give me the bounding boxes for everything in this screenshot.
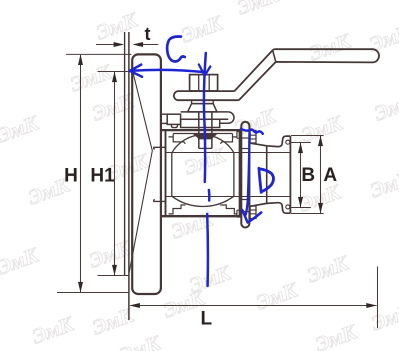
svg-text:ЭмК: ЭмК: [298, 110, 347, 148]
svg-text:H1: H1: [90, 166, 115, 187]
svg-text:ЭмК: ЭмК: [29, 311, 78, 349]
svg-text:ЭмК: ЭмК: [93, 7, 142, 45]
svg-text:ЭмК: ЭмК: [366, 19, 399, 57]
svg-text:ЭмК: ЭмК: [178, 10, 227, 48]
svg-text:B: B: [301, 165, 315, 186]
svg-text:ЭмК: ЭмК: [253, 277, 302, 315]
svg-text:ЭмК: ЭмК: [371, 88, 399, 126]
svg-text:ЭмК: ЭмК: [67, 59, 116, 97]
svg-text:H: H: [64, 166, 78, 187]
svg-text:t: t: [145, 24, 151, 44]
svg-text:ЭмК: ЭмК: [86, 235, 135, 273]
svg-text:ЭмК: ЭмК: [367, 165, 399, 203]
svg-text:ЭмК: ЭмК: [89, 88, 138, 126]
svg-text:ЭмК: ЭмК: [304, 250, 353, 288]
svg-text:A: A: [323, 165, 337, 186]
svg-text:ЭмК: ЭмК: [368, 298, 399, 336]
svg-text:ЭмК: ЭмК: [0, 110, 43, 148]
svg-text:ЭмК: ЭмК: [306, 28, 355, 66]
svg-text:ЭмК: ЭмК: [312, 319, 361, 351]
svg-text:ЭмК: ЭмК: [116, 330, 165, 351]
svg-text:ЭмК: ЭмК: [234, 0, 283, 20]
svg-text:L: L: [200, 309, 212, 330]
svg-text:ЭмК: ЭмК: [168, 206, 217, 244]
svg-text:ЭмК: ЭмК: [0, 242, 43, 280]
svg-text:ЭмК: ЭмК: [89, 302, 138, 340]
